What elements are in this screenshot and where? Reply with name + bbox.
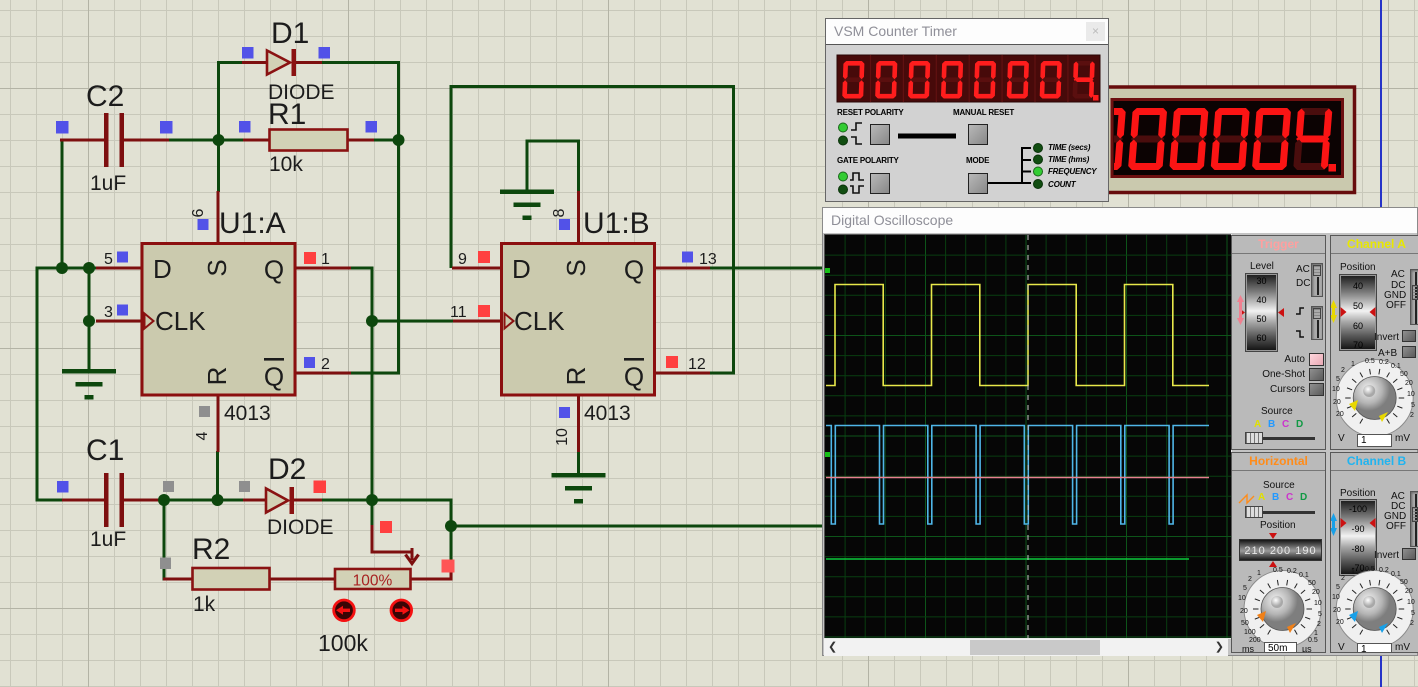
- svg-text:R1: R1: [268, 98, 306, 131]
- svg-text:13: 13: [699, 251, 717, 268]
- svg-text:1k: 1k: [193, 593, 216, 616]
- wire RV1 wiper: [371, 500, 374, 527]
- junction: [83, 262, 95, 274]
- wire pin1 vertical down: [371, 268, 374, 500]
- svg-text:CLK: CLK: [155, 306, 206, 336]
- diode D1: [267, 51, 290, 75]
- svg-text:U1:A: U1:A: [219, 207, 286, 240]
- knob: [1232, 563, 1327, 654]
- wire to CLK pin11: [372, 320, 453, 323]
- svg-text:Q: Q: [624, 255, 644, 285]
- wire pot right vertical green: [450, 525, 453, 566]
- pin stub U1:B pin13 Q: [654, 267, 710, 270]
- svg-text:100%: 100%: [353, 573, 393, 590]
- svg-text:D: D: [153, 254, 172, 284]
- pin stub U1:A pin5 D: [96, 267, 142, 270]
- svg-text:100k: 100k: [318, 630, 368, 656]
- svg-text:S: S: [202, 259, 232, 276]
- ground GND2 (U1:B R pin): [552, 473, 606, 478]
- scrollbar: [824, 639, 1228, 656]
- wire pin9 vertical: [450, 85, 453, 268]
- wire corner down to channelB junction: [450, 499, 453, 528]
- RV1 decrement button: [334, 600, 355, 621]
- svg-text:9: 9: [458, 251, 467, 268]
- wire left rail vertical: [36, 267, 39, 502]
- wire CLK/ground vertical: [88, 268, 91, 371]
- pin stub U1:B pin8 S: [577, 191, 580, 244]
- trace channel A (yellow square wave): [826, 285, 1209, 386]
- ground GND3 (U1:B S hook): [500, 190, 554, 195]
- svg-text:4: 4: [194, 431, 211, 440]
- pin stub C1 left: [62, 499, 106, 502]
- pin stub U1:A pin3 CLK: [96, 320, 142, 323]
- pin stub U1:A pin6 S: [217, 191, 220, 244]
- svg-text:Q: Q: [264, 362, 284, 392]
- pin stub U1:A pin1 Q: [295, 267, 352, 270]
- trace channel C (pink line): [826, 477, 1209, 479]
- svg-text:3: 3: [104, 304, 113, 321]
- wire D-pin row left: [36, 267, 98, 270]
- counter 7-segment display: [837, 55, 1100, 102]
- pin stub D2 cathode: [294, 499, 322, 502]
- pin stub R1 right: [347, 139, 374, 142]
- svg-text:S: S: [561, 259, 591, 276]
- pin stub D1 cathode: [295, 61, 322, 64]
- junction: [212, 494, 224, 506]
- wire D2 right row: [321, 499, 453, 502]
- cursor dashed line: [1027, 235, 1029, 638]
- pin stub RV1 right: [410, 564, 453, 581]
- pin stub R1 left: [243, 139, 270, 142]
- junction: [366, 494, 378, 506]
- Trigger panel: [1231, 235, 1326, 450]
- svg-text:D2: D2: [268, 453, 306, 486]
- mode LEDs: [1034, 144, 1043, 153]
- pin stub U1:B pin9 D: [452, 267, 502, 270]
- wire C2 left vertical: [61, 139, 64, 269]
- svg-text:C2: C2: [86, 80, 124, 113]
- scope screen: [824, 234, 1232, 639]
- 7-segment counter display CD1: [1107, 87, 1355, 193]
- svg-text:1uF: 1uF: [90, 528, 126, 551]
- RV1 increment button: [391, 600, 412, 621]
- wire U1:B S hook top: [526, 140, 581, 143]
- svg-text:D: D: [512, 254, 531, 284]
- Channel B panel: [1330, 452, 1418, 653]
- pin stub R2 left: [163, 578, 193, 581]
- wire C1 row middle: [162, 499, 244, 502]
- wire R1 right to junction: [373, 139, 400, 142]
- wire C1 to R2 vertical: [163, 500, 166, 581]
- svg-text:10: 10: [554, 428, 571, 446]
- svg-text:U1:B: U1:B: [583, 207, 650, 240]
- junction: [213, 134, 225, 146]
- knob: [1331, 354, 1418, 439]
- svg-text:6: 6: [190, 208, 207, 217]
- svg-text:CLK: CLK: [514, 306, 565, 336]
- Channel A panel: [1330, 235, 1418, 450]
- wire D1 right: [321, 61, 400, 64]
- wire D1 left horizontal: [218, 61, 244, 64]
- pin stub D1 anode: [242, 61, 268, 64]
- Horizontal panel: [1231, 452, 1326, 653]
- marker squares: [56, 121, 69, 134]
- wire pin12 vertical: [732, 85, 735, 375]
- knob: [1331, 563, 1418, 654]
- wire U1:B S hook right: [577, 140, 580, 193]
- svg-text:8: 8: [551, 208, 568, 217]
- trace channel D (green line): [826, 558, 1189, 560]
- diode D2: [266, 489, 288, 513]
- pin stub R2 to RV1: [269, 578, 335, 581]
- svg-text:DIODE: DIODE: [267, 516, 334, 539]
- svg-text:Q: Q: [624, 362, 644, 392]
- wire U1:B R pin lower: [577, 451, 580, 477]
- svg-text:R: R: [561, 367, 591, 386]
- wire right vertical D1/R1 to Q-bar: [397, 61, 400, 375]
- capacitor C1: [104, 473, 109, 527]
- wire Q13 to scope: [709, 267, 823, 270]
- pin stub C2 right: [124, 139, 169, 142]
- reset polarity LEDs: [839, 123, 848, 132]
- svg-text:R2: R2: [192, 533, 230, 566]
- pin stub U1:B pin12 Qbar: [654, 372, 710, 375]
- wire pin12 row: [709, 372, 735, 375]
- wire D1 left vertical: [217, 61, 220, 192]
- svg-text:10k: 10k: [269, 153, 303, 176]
- svg-text:11: 11: [450, 304, 467, 321]
- wire C2 to R1 row: [168, 139, 244, 142]
- pin stub C2 left: [60, 139, 106, 142]
- wire Q-bar row: [350, 372, 400, 375]
- flip-flop U1:B: [502, 244, 655, 396]
- svg-text:4013: 4013: [224, 402, 271, 425]
- junction: [56, 262, 68, 274]
- svg-text:1: 1: [321, 251, 330, 268]
- potentiometer RV1: [335, 569, 411, 589]
- junction: [366, 315, 378, 327]
- trace channel B (cyan pulses): [826, 426, 1209, 525]
- sheet border blue line: [1380, 0, 1382, 687]
- junction: [158, 494, 170, 506]
- counter display: [826, 19, 1110, 203]
- gate polarity LEDs: [839, 172, 848, 181]
- wire to scope channel B: [451, 525, 823, 528]
- pin stub U1:B pin10 R: [577, 396, 580, 453]
- svg-text:4013: 4013: [584, 402, 631, 425]
- pin stub U1:A pin4 R: [217, 396, 220, 453]
- svg-text:12: 12: [688, 356, 706, 373]
- junction: [445, 520, 457, 532]
- svg-text:5: 5: [104, 251, 113, 268]
- junction: [393, 134, 405, 146]
- wire U1:B S hook left: [526, 140, 529, 192]
- capacitor C2: [104, 113, 109, 167]
- wire feedback top loop: [450, 85, 736, 88]
- flip-flop U1:A: [142, 244, 295, 396]
- svg-text:R: R: [202, 367, 232, 386]
- wire left rail to C1: [37, 499, 64, 502]
- pin stub U1:B pin11 CLK: [453, 320, 502, 323]
- pin stub U1:A pin2 Qbar: [295, 372, 352, 375]
- svg-text:C1: C1: [86, 434, 124, 467]
- wire U1:A R pin lower: [216, 451, 219, 502]
- svg-text:Q: Q: [264, 255, 284, 285]
- svg-text:D1: D1: [271, 17, 309, 50]
- wire Q pin1 to corner: [350, 267, 374, 270]
- ground GND1 (U1:A clk rail): [62, 369, 116, 374]
- svg-text:2: 2: [321, 356, 330, 373]
- svg-text:1uF: 1uF: [90, 172, 126, 195]
- pin stub D2 anode: [243, 499, 267, 502]
- channel position ticks: [825, 268, 830, 273]
- junction: [83, 315, 95, 327]
- pin stub C1 right: [124, 499, 165, 502]
